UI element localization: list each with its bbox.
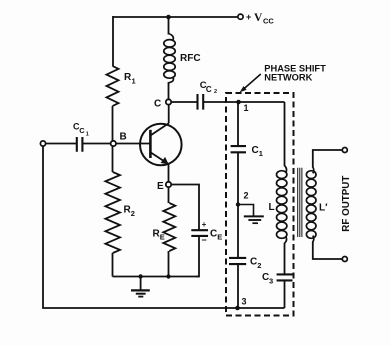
svg-text:−: − bbox=[202, 235, 207, 245]
wire node E to CE branch bbox=[171, 185, 199, 231]
capacitor CE bbox=[191, 230, 208, 236]
svg-text:RFC: RFC bbox=[180, 53, 201, 64]
svg-text:3: 3 bbox=[242, 297, 247, 307]
svg-text:1: 1 bbox=[259, 149, 263, 158]
svg-text:E: E bbox=[160, 233, 165, 242]
svg-text:2: 2 bbox=[214, 89, 217, 95]
svg-text:+: + bbox=[246, 12, 251, 22]
svg-text:2: 2 bbox=[244, 191, 249, 201]
wire collector to node C bbox=[168, 105, 170, 124]
node 2 bbox=[236, 202, 240, 206]
node bias/RE junction bbox=[166, 274, 170, 278]
svg-text:1: 1 bbox=[86, 131, 89, 137]
svg-text:V: V bbox=[254, 12, 263, 24]
svg-text:C: C bbox=[79, 126, 85, 135]
node B bbox=[111, 141, 116, 146]
wire secondary top to terminal bbox=[313, 150, 343, 168]
svg-text:NETWORK: NETWORK bbox=[264, 73, 312, 83]
wire RFC to node C bbox=[168, 82, 170, 100]
capacitor C1 bbox=[231, 146, 246, 152]
svg-text:C: C bbox=[250, 257, 257, 268]
wire RFC branch top bbox=[168, 17, 170, 35]
wire R2 to bias rail bbox=[112, 253, 114, 277]
wire secondary bottom to terminal bbox=[313, 242, 343, 260]
wire top supply rail bbox=[113, 16, 238, 18]
svg-text:B: B bbox=[120, 132, 127, 143]
resistor R1 bbox=[107, 66, 119, 106]
node 3 bbox=[235, 306, 240, 311]
wire emitter to node E bbox=[168, 163, 170, 182]
resistor R2 bbox=[105, 172, 120, 253]
inductor L' secondary bbox=[306, 171, 316, 179]
capacitor C3 bbox=[277, 274, 293, 280]
svg-text:2: 2 bbox=[131, 209, 135, 218]
wire node 1 to C1 bbox=[237, 102, 239, 146]
svg-text:+: + bbox=[202, 220, 207, 229]
node 1 bbox=[236, 100, 241, 105]
inductor L primary bbox=[277, 171, 287, 179]
wire Cc1 to node B bbox=[83, 143, 111, 145]
svg-text:C: C bbox=[154, 99, 161, 110]
wire node E to RE bbox=[168, 187, 170, 203]
ground node 2 bbox=[238, 205, 264, 224]
node junction top rail / RFC bbox=[166, 15, 171, 20]
wire node 2 to C2 bbox=[237, 205, 239, 258]
node C bbox=[166, 99, 171, 104]
svg-text:1: 1 bbox=[244, 103, 249, 113]
terminal feedback input bbox=[40, 141, 45, 146]
svg-text:E: E bbox=[157, 181, 164, 192]
ground main bbox=[131, 277, 150, 297]
arrow to box bbox=[240, 74, 261, 92]
svg-text:CC: CC bbox=[263, 16, 274, 25]
svg-text:1: 1 bbox=[132, 77, 136, 86]
wire R1 branch top bbox=[112, 16, 114, 66]
wire L to C3 bbox=[284, 243, 286, 275]
wire R1 to node B bbox=[112, 106, 114, 141]
svg-text:C: C bbox=[206, 85, 212, 94]
wire C2 to node 3 bbox=[237, 264, 239, 308]
dashed box phase shift network bbox=[226, 93, 294, 316]
svg-text:C: C bbox=[252, 145, 259, 156]
transformer core bbox=[298, 168, 302, 237]
svg-text:C: C bbox=[210, 229, 217, 240]
resistor RE bbox=[163, 203, 175, 251]
svg-text:RF OUTPUT: RF OUTPUT bbox=[341, 176, 352, 232]
wire node B to R2 bbox=[112, 146, 114, 172]
svg-text:3: 3 bbox=[269, 276, 273, 285]
terminal RF output top bbox=[342, 148, 347, 153]
inductor RFC bbox=[164, 40, 175, 47]
wire node C to Cc2 bbox=[171, 101, 197, 103]
wire Cc2 to node 1 and across box to L branch bbox=[204, 101, 285, 103]
wire node 3 to C3 branch bbox=[238, 307, 285, 309]
wire RE to bias rail bbox=[168, 251, 170, 277]
svg-text:2: 2 bbox=[257, 261, 261, 270]
svg-text:E: E bbox=[217, 233, 222, 242]
node E bbox=[166, 182, 171, 187]
terminal RF output bottom bbox=[342, 257, 347, 262]
wire base bbox=[116, 143, 150, 145]
terminal +Vcc bbox=[238, 14, 243, 19]
wire CE to bias rail bbox=[196, 236, 199, 277]
svg-text:L: L bbox=[269, 202, 275, 213]
capacitor Cc2 bbox=[198, 94, 204, 110]
capacitor C2 bbox=[229, 258, 246, 264]
wire feedback left and bottom bbox=[43, 146, 237, 308]
transistor Q1 bbox=[140, 123, 182, 165]
wire C3 to node 3 rail bbox=[284, 280, 286, 308]
capacitor Cc1 bbox=[77, 137, 83, 152]
wire C1 to node 2 bbox=[237, 152, 239, 204]
wire bias rail bbox=[113, 276, 200, 278]
wire terminal to Cc1 bbox=[46, 143, 77, 145]
node bias/ground junction bbox=[138, 274, 142, 278]
svg-text:L′: L′ bbox=[319, 203, 328, 214]
wire top right branch down to L bbox=[284, 102, 286, 166]
